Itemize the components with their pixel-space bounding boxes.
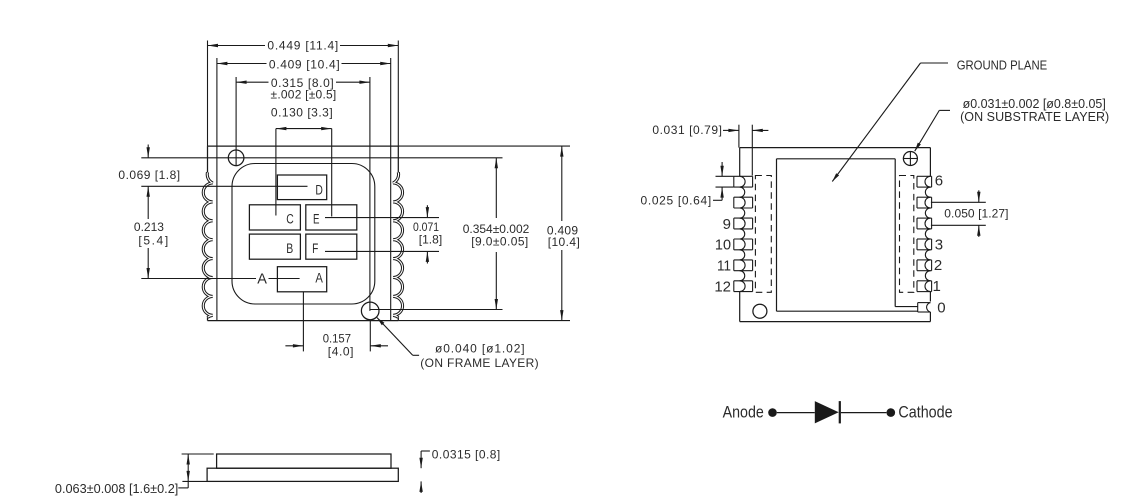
dim 0.157 arrows — [285, 345, 303, 347]
castellation pad 0 (bottom-right corner) — [918, 302, 931, 304]
horizontal line from bottom-right circle (0.354 datum) — [370, 309, 502, 311]
fiducial circle bottom-left (substrate) — [753, 304, 767, 318]
dim 0.157 extension lines — [302, 292, 304, 352]
pad B — [249, 234, 300, 259]
leader line into pad A — [141, 278, 256, 280]
cathode terminal dot — [887, 408, 896, 417]
dim 0.025 extension lines — [716, 175, 734, 177]
dim 0.315 line+arrows — [236, 81, 268, 83]
svg-text:6: 6 — [935, 173, 943, 190]
side view: upper slab — [217, 454, 391, 468]
wire anode to diode — [777, 412, 815, 414]
svg-text:A: A — [315, 270, 323, 285]
dim 0.449 extension lines — [207, 41, 209, 147]
svg-text:ø0.040 [ø1.02]: ø0.040 [ø1.02] — [435, 342, 526, 356]
svg-text:Anode: Anode — [723, 402, 764, 421]
dim 0.409 right extension lines — [398, 145, 570, 147]
svg-text:[1.8]: [1.8] — [419, 233, 442, 247]
svg-text:0.130 [3.3]: 0.130 [3.3] — [271, 106, 333, 120]
svg-text:12: 12 — [714, 279, 731, 296]
svg-text:±.002 [±0.5]: ±.002 [±0.5] — [271, 88, 337, 102]
dim 0.449 line+arrows — [208, 45, 266, 47]
svg-text:0.050 [1.27]: 0.050 [1.27] — [944, 207, 1008, 221]
svg-text:(ON SUBSTRATE LAYER): (ON SUBSTRATE LAYER) — [960, 110, 1109, 124]
dashed substrate pad row (left) — [755, 176, 771, 293]
dim 0.409 right vertical line+arrows — [561, 146, 563, 221]
leader to screw-cross fiducial (ø0.031) — [939, 109, 950, 111]
svg-text:0.0315 [0.8]: 0.0315 [0.8] — [432, 448, 501, 462]
pad F — [306, 234, 357, 259]
svg-text:ø0.031±0.002 [ø0.8±0.05]: ø0.031±0.002 [ø0.8±0.05] — [963, 97, 1106, 111]
left view: inner boundary line right — [390, 146, 392, 321]
dim 0.315 extension lines — [235, 77, 237, 166]
left view: castellated scalloped right edge — [393, 172, 402, 317]
left view: package bottom edge — [208, 320, 399, 322]
leader to bottom-right circle (ø0.040) — [377, 318, 413, 356]
svg-text:0.063±0.008 [1.6±0.2]: 0.063±0.008 [1.6±0.2] — [55, 481, 178, 496]
dim 0.130 line+arrows — [276, 128, 332, 130]
svg-text:E: E — [313, 212, 320, 227]
dim 0.0315 bracket and arrows — [421, 450, 430, 452]
side view: lower slab — [207, 468, 398, 481]
svg-text:Cathode: Cathode — [898, 402, 952, 421]
svg-text:GROUND PLANE: GROUND PLANE — [957, 58, 1047, 72]
pad D — [277, 175, 326, 200]
pad E — [306, 205, 357, 230]
screw-cross fiducial top-right — [903, 152, 917, 166]
svg-text:[9.0±0.05]: [9.0±0.05] — [471, 235, 529, 249]
svg-text:0.449 [11.4]: 0.449 [11.4] — [267, 38, 339, 52]
svg-text:1: 1 — [933, 278, 941, 295]
svg-text:10: 10 — [715, 237, 731, 254]
fiducial circle top-left (frame layer) — [228, 150, 244, 166]
svg-text:[5.4]: [5.4] — [138, 234, 169, 248]
svg-text:9: 9 — [723, 216, 731, 233]
leader from pad E (0.071) — [325, 217, 439, 219]
wire diode to cathode — [841, 412, 887, 414]
dim 0.031 arrows — [723, 129, 739, 131]
left view: rounded-square frame layer outline — [232, 164, 375, 305]
left view: right edge straight segments — [397, 146, 399, 172]
right view: right castellation pads (6..1 side) — [917, 175, 932, 177]
right view: left castellation pads (12,11,10,9 side) — [734, 175, 753, 177]
dim 0.069 upper arrow — [147, 145, 149, 158]
right view: package bottom edge — [740, 321, 931, 323]
leader line into pad D — [141, 185, 307, 187]
dim 0.409 top line+arrows — [217, 63, 267, 65]
svg-text:2: 2 — [934, 257, 942, 274]
svg-text:0.157: 0.157 — [323, 331, 352, 345]
svg-text:0.069 [1.8]: 0.069 [1.8] — [118, 168, 180, 182]
diode triangle — [815, 401, 839, 423]
fiducial circle bottom-right (frame layer) — [361, 302, 379, 320]
dim 0.071 arrows — [426, 205, 428, 217]
svg-text:0.213: 0.213 — [134, 220, 164, 234]
svg-text:3: 3 — [935, 237, 943, 254]
dim 0.025 arrows — [721, 162, 723, 176]
right view: package top edge — [740, 147, 931, 149]
dim 0.063 ticks and leader — [182, 453, 214, 455]
right view: right edge segments — [929, 148, 931, 177]
dim 0.050 leader lines — [931, 201, 986, 203]
left view: left edge straight segments — [207, 146, 209, 172]
svg-text:0.031 [0.79]: 0.031 [0.79] — [652, 123, 722, 137]
svg-text:11: 11 — [717, 258, 731, 275]
dim 0.354 vertical line+arrows — [495, 158, 497, 218]
dim 0.130 extension lines into pads C and E — [275, 129, 277, 216]
svg-text:B: B — [286, 241, 293, 256]
pad C — [249, 205, 300, 230]
svg-text:0.409 [10.4]: 0.409 [10.4] — [269, 58, 340, 72]
svg-text:C: C — [286, 212, 294, 227]
svg-text:[4.0]: [4.0] — [328, 344, 354, 358]
svg-text:0: 0 — [937, 300, 945, 317]
svg-text:0.025 [0.64]: 0.025 [0.64] — [641, 194, 712, 208]
pad A — [277, 267, 326, 292]
dim 0.050 arrows — [978, 190, 980, 202]
left view: castellated scalloped left edge — [203, 172, 212, 317]
left view: inner boundary line left — [216, 146, 218, 321]
svg-text:(ON FRAME LAYER): (ON FRAME LAYER) — [420, 356, 539, 370]
left view: package top edge — [208, 145, 399, 147]
horizontal line through top-left circle (0.069 / 0.354 datum) — [141, 157, 502, 159]
anode terminal dot — [768, 408, 777, 417]
svg-text:F: F — [312, 241, 318, 256]
leader from pad F (0.071) — [325, 250, 439, 252]
dim 0.213 vertical line+arrows — [147, 186, 149, 219]
diode cathode bar — [839, 401, 841, 423]
leader to ground plane — [921, 62, 949, 64]
svg-text:D: D — [315, 183, 323, 198]
dim 0.409 top extension lines — [216, 58, 218, 146]
ground plane rectangle — [777, 158, 896, 160]
dim 0.031 extension lines — [738, 125, 740, 148]
right view: left edge segments — [739, 148, 741, 177]
dashed substrate pad row (right) — [900, 176, 914, 293]
svg-text:[10.4]: [10.4] — [548, 235, 581, 249]
svg-text:A: A — [257, 272, 267, 288]
